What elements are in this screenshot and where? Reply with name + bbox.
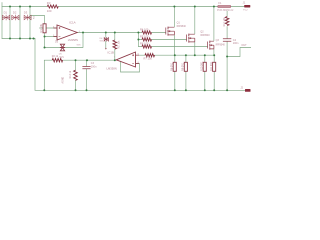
op-amp IC1A pin stubs [53,28,57,37]
junction gnd e [185,89,187,91]
tvs D2 [12,15,20,20]
svg-text:100n: 100n [91,65,97,68]
transistor Q2 [187,34,195,43]
resistor R3 [47,5,58,8]
junction plus net a [174,54,176,56]
capacitor C3 [82,67,90,69]
junction plus net b [185,54,187,56]
svg-text:D2: D2 [13,11,17,15]
tvs D3 [24,15,31,20]
wires group [2,3,251,91]
capacitor C4 [223,39,231,41]
junction gnd d [174,89,176,91]
svg-text:R8 0R1: R8 0R1 [170,62,173,71]
svg-text:100n: 100n [233,42,239,45]
wire Q1 drain [173,7,175,27]
junction out z [226,56,228,58]
wire R10 column [204,55,206,90]
svg-text:D1: D1 [4,11,8,15]
wire Q2 drain [194,7,196,34]
resistor shunt A [74,70,78,80]
op-amp IC1B input marks [132,54,134,63]
junction plus net e [213,54,215,56]
junction fan2 [137,39,139,41]
junction zener top [105,32,107,34]
svg-text:R4 100: R4 100 [140,28,149,32]
svg-text:R2 10k: R2 10k [118,40,121,49]
junction R2 top [114,32,116,34]
svg-text:D5: D5 [55,41,59,44]
svg-text:IC1B: IC1B [108,51,114,55]
svg-text:PCB-SB250-02: PCB-SB250-02 [217,9,234,12]
junction top rail 1 [9,6,11,8]
wire ground rail [35,89,245,91]
junction bottom rail 3 [29,38,31,40]
wire fan vertical [137,33,139,47]
svg-text:R1 10k: R1 10k [39,23,43,32]
svg-text:R5 100: R5 100 [140,35,149,39]
wire fuse to J1 [231,6,244,8]
svg-text:F1: F1 [218,1,222,5]
junction gnd g [213,89,215,91]
svg-text:TV-2: TV-2 [243,10,248,12]
svg-text:LM358N: LM358N [68,38,78,42]
svg-text:IRF9540: IRF9540 [216,44,226,47]
junction gnd c [86,89,88,91]
wire bottom input rail [2,38,35,40]
wire Q1 source [173,35,175,55]
wire Q3 source [213,49,215,55]
wire input column 2 [19,7,21,39]
wire R9 column [185,55,187,90]
wire Q3 drain [213,7,215,41]
wire output Z [227,48,251,57]
op-amp IC1B pin stubs [136,55,140,63]
svg-text:R1: R1 [34,15,36,19]
wire R6 row [138,46,207,48]
junction bottom rail corner [33,38,35,40]
tvs D1 [2,15,10,20]
svg-text:AGND: AGND [62,77,65,84]
svg-text:OUT: OUT [241,44,247,47]
svg-text:IRF9540: IRF9540 [177,25,187,28]
svg-text:R2 1k: R2 1k [52,55,59,58]
svg-text:R11 0R1: R11 0R1 [210,61,213,71]
svg-text:R7 100: R7 100 [144,56,153,60]
junction out c [114,59,116,61]
svg-text:5V1: 5V1 [60,56,65,59]
svg-text:D3: D3 [24,11,28,15]
wire op1 plus input [40,27,58,29]
svg-text:R10 0R1: R10 0R1 [200,61,203,71]
resistor R7 [145,54,155,57]
svg-text:R6 100: R6 100 [140,42,149,46]
fuse F1 [218,5,231,7]
resistor R11 [213,62,216,71]
wire op2 plus input [136,54,214,56]
wire zener column [105,33,107,49]
junction fan [137,32,139,34]
junction Q1 drain [173,6,175,8]
wire op1 minus input [45,36,58,38]
resistor R2b inline [52,59,62,62]
wire R4 row [138,32,165,34]
transistor Q1 [166,27,175,36]
junction out a [75,59,77,61]
junction R1 minus tap [44,36,46,38]
resistor R6 [142,45,152,48]
zener pair D4 [104,37,108,41]
wire R5 row [138,39,186,41]
resistor R4 [142,31,152,34]
svg-text:LM358N: LM358N [107,67,117,71]
junction bottom rail 1 [9,38,11,40]
svg-text:R13 1k: R13 1k [69,70,72,78]
wire R11 column [213,55,215,90]
junction top rail 3 [29,6,31,8]
junction R1 bottom [44,47,46,49]
pin end D4 [105,48,106,49]
transistor Q3 [208,41,214,50]
resistor R2 vertical [113,40,117,49]
junction top rail 2 [19,6,21,8]
svg-text:R12 10k: R12 10k [223,17,226,27]
svg-text:J2: J2 [240,86,243,89]
tvs D5 [60,44,65,51]
junction gnd f [204,89,206,91]
svg-text:5V6: 5V6 [77,44,82,46]
wire C3 column [86,60,88,90]
resistor R5 [142,38,152,41]
svg-text:R9 0R1: R9 0R1 [182,62,185,71]
svg-text:J1: J1 [243,0,246,4]
junction Q3 drain [213,6,215,8]
wire input column 3 [29,7,31,39]
wire Q2 source [194,42,196,55]
wire left output drop [43,60,45,90]
svg-text:IRF9540: IRF9540 [200,34,210,37]
wire left main vertical [34,39,36,91]
junction bottom rail 2 [19,38,21,40]
junction gnd h [226,89,228,91]
svg-text:R3: R3 [47,1,51,5]
wire top rail [2,6,218,8]
svg-text:7: 7 [114,57,116,59]
junction gnd a [43,89,45,91]
wire op2 feedback [121,61,140,72]
wire R12 column [226,11,228,90]
op-amp IC1B [116,52,135,67]
resistor R1 [43,24,46,33]
junction plus net d [204,54,206,56]
resistor R10 [203,62,206,71]
svg-text:100: 100 [47,9,52,13]
resistor R12 [225,17,229,26]
junction zener feedback [82,32,84,34]
svg-text:Q3: Q3 [216,39,220,42]
wire R8 column [174,55,176,90]
op-amp IC1A input marks [59,27,61,36]
op-amp IC1A [57,25,77,40]
connector J1 pad [244,5,250,8]
resistor R8 [173,62,176,71]
wire tvs node [45,33,84,48]
wire R2 column [114,33,116,61]
wire shunt resistor column a [75,60,77,90]
junction out b [86,59,88,61]
resistor R9 [184,62,187,71]
wire input column 0 [1,3,3,39]
junction Q2 drain [194,6,196,8]
wire input column 1 [9,7,11,39]
junction gnd b [75,89,77,91]
svg-text:IC1A: IC1A [69,21,76,25]
connector J2 pad [245,89,251,92]
wire R1 tap [30,16,45,24]
wire op2 output [44,59,116,61]
svg-text:5V1: 5V1 [100,41,105,43]
wire op1 output [77,32,138,34]
wire R1 bottom lead [44,33,46,48]
junction dots [9,6,228,92]
junction plus net c [194,54,196,56]
